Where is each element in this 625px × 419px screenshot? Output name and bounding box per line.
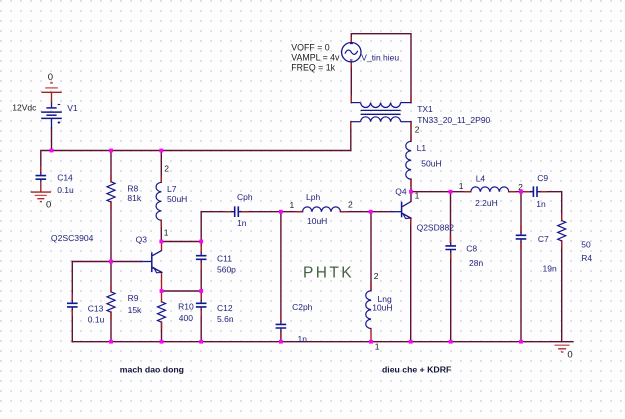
pin Lph right	[341, 211, 347, 213]
svg-text:2: 2	[164, 163, 169, 173]
node C7 bottom	[519, 340, 523, 344]
svg-text:12Vdc: 12Vdc	[12, 103, 37, 113]
svg-text:560p: 560p	[217, 264, 236, 274]
wire C11 column: Cph rail corner down to C11	[200, 212, 202, 253]
wire C13 branch lower	[71, 310, 73, 342]
capacitor C8	[445, 243, 456, 253]
pin Cph left	[226, 211, 232, 213]
pin L7 bottom	[160, 220, 162, 226]
node C2ph bottom	[279, 340, 283, 344]
pin TX1 primary left	[350, 96, 352, 103]
svg-text:10uH: 10uH	[307, 216, 327, 226]
svg-text:Q2SD882: Q2SD882	[417, 222, 455, 232]
pin sine source top	[350, 38, 352, 43]
svg-text:C2ph: C2ph	[292, 302, 313, 312]
node Lph/Lng/Q4 base	[369, 210, 373, 214]
transistor Q3	[141, 250, 162, 272]
pin TX1 secondary right	[410, 122, 412, 128]
pin R10 bottom	[161, 322, 163, 328]
pin C12 top	[200, 295, 202, 301]
svg-text:dieu che + KDRF: dieu che + KDRF	[382, 365, 451, 375]
wire Lng top lead	[370, 212, 372, 291]
svg-text:L1: L1	[417, 143, 427, 153]
pin TX1 secondary left	[350, 122, 352, 128]
svg-text:R4: R4	[581, 253, 592, 263]
pin L1 bottom	[410, 179, 412, 185]
wire top bus from C14 corner to transformer secondary left	[41, 122, 351, 172]
svg-text:2: 2	[374, 271, 379, 281]
inductor Lph	[303, 207, 341, 212]
wire R8 top lead	[110, 151, 112, 182]
svg-text:R9: R9	[128, 293, 139, 303]
svg-text:C8: C8	[466, 243, 477, 253]
resistor R10	[158, 302, 166, 322]
sine source V_tin hieu	[342, 43, 361, 62]
wire sine source bottom to transformer primary left	[350, 62, 352, 103]
svg-text:5.6n: 5.6n	[217, 314, 234, 324]
pin L7 top	[160, 176, 162, 182]
wire R9 bottom lead	[110, 312, 112, 342]
svg-text:1n: 1n	[237, 218, 247, 228]
node base row	[109, 260, 113, 264]
svg-text:VAMPL = 4v: VAMPL = 4v	[291, 52, 340, 62]
wire transformer secondary right to L1	[410, 122, 412, 141]
svg-text:1n: 1n	[536, 199, 546, 209]
wire base row	[72, 261, 141, 263]
wire C7 branch upper	[520, 192, 522, 232]
pin C8 bottom	[450, 253, 452, 259]
node Cph/Lph/C2ph	[279, 210, 283, 214]
svg-text:C7: C7	[538, 234, 549, 244]
svg-text:1: 1	[164, 228, 169, 238]
wire L7 top lead	[160, 151, 162, 183]
pin R8 bottom	[110, 202, 112, 209]
wire Cph rail left segment	[201, 211, 231, 213]
svg-text:VOFF = 0: VOFF = 0	[291, 43, 329, 53]
node R8/bus	[109, 149, 113, 153]
svg-text:2: 2	[348, 200, 353, 210]
pin C11 top	[200, 247, 202, 253]
svg-text:81k: 81k	[127, 193, 141, 203]
wire Cph to Lph	[242, 211, 303, 213]
pin TX1 primary right	[410, 96, 412, 103]
pin C13 top	[71, 295, 73, 301]
svg-text:50uH: 50uH	[167, 194, 187, 204]
svg-text:0.1u: 0.1u	[88, 314, 105, 324]
wire sine source top loop to transformer primary right	[351, 34, 411, 103]
pin sine source bottom	[350, 62, 352, 67]
pin L4 right	[509, 191, 515, 193]
wire L4 to C9	[509, 191, 530, 193]
svg-text:L4: L4	[476, 173, 486, 183]
svg-text:0: 0	[48, 72, 53, 83]
wire bottom bus	[72, 341, 573, 343]
wire C2ph branch upper	[280, 212, 282, 321]
svg-text:15k: 15k	[128, 305, 142, 315]
node C12 top	[199, 289, 203, 293]
pin Q3 emitter stub	[161, 272, 163, 291]
svg-text:1: 1	[290, 200, 295, 210]
inductor L1	[406, 141, 411, 179]
svg-text:Cph: Cph	[237, 192, 253, 202]
svg-text:R10: R10	[178, 302, 194, 312]
svg-text:V_tin hieu: V_tin hieu	[361, 53, 399, 63]
node C12 bottom	[199, 340, 203, 344]
wire L1 bottom to Q4 collector node	[410, 179, 412, 201]
svg-text:0.1u: 0.1u	[57, 185, 74, 195]
ground 0 above battery (flipped)	[41, 83, 61, 103]
svg-text:L7: L7	[167, 184, 177, 194]
inductor L7	[156, 182, 161, 220]
svg-text:1: 1	[375, 342, 380, 352]
wire C11 bottom to emitter row junction	[200, 263, 202, 301]
svg-text:2: 2	[415, 124, 420, 134]
pin Cph right	[242, 211, 248, 213]
pin Lph left	[296, 211, 302, 213]
wire collector row	[161, 241, 201, 243]
pin R4 top	[561, 215, 563, 221]
node battery/bus	[50, 149, 54, 153]
capacitor C2ph	[276, 321, 287, 331]
node Q4 collector	[409, 190, 413, 194]
pin R9 bottom	[110, 312, 112, 318]
svg-text:0: 0	[567, 350, 572, 361]
wire R9 top lead	[110, 262, 112, 292]
wire C12 bottom lead	[200, 310, 202, 342]
node R10 bottom	[160, 340, 164, 344]
svg-text:TX1: TX1	[417, 104, 433, 114]
svg-text:Lph: Lph	[306, 192, 320, 202]
node C8 bottom	[449, 340, 453, 344]
resistor R8	[107, 182, 115, 202]
pin R4 bottom	[561, 241, 563, 247]
pin C9 left	[524, 191, 530, 193]
transformer TX1	[351, 103, 411, 122]
wire output row Q4 to L4	[411, 191, 471, 193]
battery V1	[41, 103, 62, 129]
svg-text:2.2uH: 2.2uH	[475, 198, 498, 208]
wire Lph to Lng junction	[341, 211, 371, 213]
wire C13 branch upper	[71, 262, 73, 301]
wire emitter row	[162, 290, 202, 292]
pin Lng top	[370, 284, 372, 291]
svg-text:50uH: 50uH	[421, 159, 441, 169]
svg-text:R8: R8	[127, 183, 138, 193]
pin C8 top	[450, 237, 452, 243]
pin C9 right	[540, 191, 546, 193]
wire R8 bottom to base row	[110, 202, 112, 261]
node Q3 emitter	[160, 289, 164, 293]
svg-text:10uH: 10uH	[372, 302, 392, 312]
pin Q4 emitter bottom	[410, 218, 412, 224]
svg-text:C14: C14	[57, 172, 73, 182]
svg-text:0: 0	[46, 199, 51, 210]
ground 0 bottom right	[555, 345, 570, 352]
svg-text:Q2SC3904: Q2SC3904	[51, 233, 94, 243]
pin C12 bottom	[200, 310, 202, 316]
wire C2ph branch lower	[280, 331, 282, 341]
svg-text:50: 50	[581, 239, 591, 249]
pin R8 top	[110, 175, 112, 182]
wire C8 branch lower	[450, 253, 452, 342]
svg-text:400: 400	[179, 313, 193, 323]
capacitor C12	[196, 300, 207, 310]
transistor Q4	[392, 202, 411, 219]
resistor R4	[558, 221, 566, 241]
svg-text:FREQ = 1k: FREQ = 1k	[291, 62, 335, 72]
svg-text:19n: 19n	[543, 263, 557, 273]
svg-text:Q3: Q3	[136, 235, 148, 245]
svg-text:1: 1	[459, 181, 464, 191]
wire C7 branch lower	[520, 242, 522, 341]
svg-text:C12: C12	[217, 303, 233, 313]
svg-text:Q4: Q4	[395, 187, 407, 197]
svg-text:TN33_20_11_2P90: TN33_20_11_2P90	[417, 115, 490, 125]
pin C14 top	[40, 167, 42, 173]
wire R10 top lead	[161, 291, 163, 302]
wire C8 branch upper	[450, 192, 452, 243]
capacitor C7	[516, 232, 527, 242]
capacitor C13	[67, 300, 78, 310]
pin Q3 collector stub	[161, 242, 163, 251]
wire C9 to R4 corner	[540, 192, 561, 221]
svg-text:28n: 28n	[469, 258, 483, 268]
capacitor C14	[36, 172, 47, 182]
wire R4 bottom lead	[561, 241, 563, 342]
pin L1 top	[410, 135, 412, 141]
pin C13 bottom	[71, 310, 73, 316]
node Q3 collector	[159, 240, 163, 244]
wire battery bottom to bus	[51, 128, 53, 151]
node R9 bottom	[109, 340, 113, 344]
node C11 top	[199, 240, 203, 244]
wire Lng junction to Q4 base	[371, 211, 392, 213]
pin C7 bottom	[520, 242, 522, 248]
pin L4 left	[465, 191, 471, 193]
ground 0 below C14	[31, 183, 51, 202]
capacitor C11	[196, 252, 207, 262]
capacitor C9 (horizontal)	[530, 186, 540, 197]
svg-text:mach dao dong: mach dao dong	[120, 365, 184, 375]
capacitor Cph (horizontal)	[231, 206, 241, 217]
wire L7 bottom to collector node	[160, 220, 162, 241]
node L4 pin1	[449, 190, 453, 194]
svg-text:PHTK: PHTK	[303, 265, 354, 282]
node Lng bottom	[369, 340, 373, 344]
resistor R9	[107, 292, 115, 312]
svg-text:1: 1	[415, 191, 420, 201]
svg-text:C9: C9	[537, 173, 548, 183]
pin C7 top	[520, 226, 522, 232]
pin R9 top	[110, 286, 112, 292]
inductor L4	[471, 187, 509, 192]
svg-text:V1: V1	[67, 103, 78, 113]
svg-text:1n: 1n	[298, 334, 308, 344]
svg-text:C13: C13	[88, 303, 104, 313]
pin C2ph bottom	[280, 331, 282, 337]
pin C2ph top	[280, 315, 282, 321]
node Q4 emitter bottom	[409, 340, 413, 344]
svg-text:C11: C11	[217, 253, 232, 263]
wire Lng bottom lead	[370, 329, 372, 342]
pin C11 bottom	[200, 263, 202, 269]
node C7 top	[519, 190, 523, 194]
inductor Lng	[366, 291, 371, 329]
node L7/bus	[159, 149, 163, 153]
wire Q4 emitter column	[410, 218, 412, 342]
wire R10 bottom lead	[161, 322, 163, 342]
